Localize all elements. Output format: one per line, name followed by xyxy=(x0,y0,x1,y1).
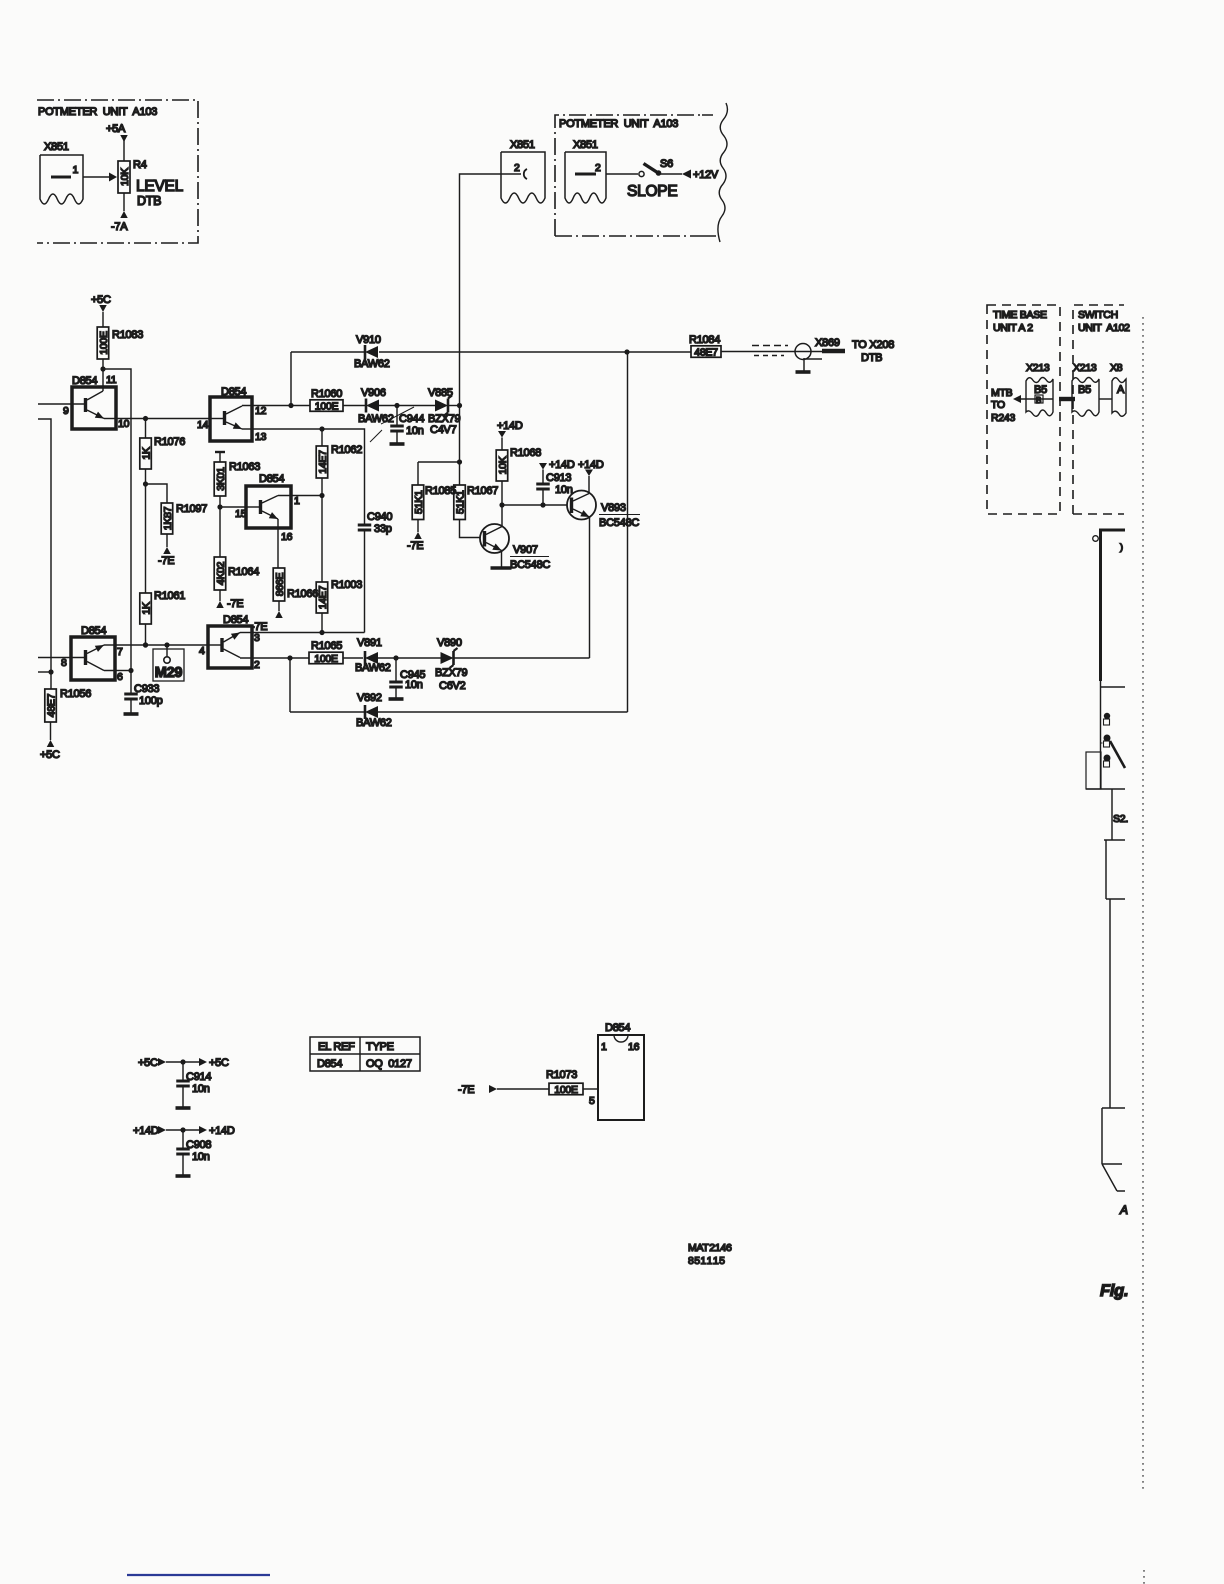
svg-text:X851: X851 xyxy=(44,141,69,153)
diode V910 BAW62 xyxy=(354,334,390,370)
svg-text:48E7: 48E7 xyxy=(694,346,718,358)
svg-text:POTMETER UNIT A103: POTMETER UNIT A103 xyxy=(559,118,678,130)
svg-text:): ) xyxy=(1120,542,1123,552)
wire pin 2 to R1065 xyxy=(252,655,309,660)
wire V890 to V893 emitter xyxy=(454,657,590,659)
svg-text:S6: S6 xyxy=(660,158,673,170)
svg-text:A: A xyxy=(1119,1203,1128,1217)
MTB arrow to R243 xyxy=(991,387,1053,424)
svg-text:3: 3 xyxy=(254,632,260,644)
wire R1063 node to pin 15 xyxy=(220,506,246,508)
wire pin 1 to R1062/R1003 node xyxy=(291,493,325,498)
svg-text:BAW62: BAW62 xyxy=(355,662,391,674)
resistor R1003 14E7 xyxy=(316,579,362,635)
page fold dotted line xyxy=(1143,317,1144,1584)
resistor R1061 1K xyxy=(140,484,185,648)
connector X86x (clipped at fold) xyxy=(1110,362,1126,416)
unit box TIME BASE UNIT A2 xyxy=(987,305,1060,514)
svg-text:R1060: R1060 xyxy=(311,388,342,400)
svg-text:+14D: +14D xyxy=(578,459,604,471)
svg-text:-7E: -7E xyxy=(407,540,423,552)
capacitor C913 10n xyxy=(536,459,575,505)
capacitor C914 10n xyxy=(176,1062,212,1108)
svg-text:TO X208: TO X208 xyxy=(852,339,894,351)
wire X851-2 down to trigger circuit xyxy=(460,174,502,462)
svg-text:POTMETER UNIT A103: POTMETER UNIT A103 xyxy=(38,106,157,118)
wire V885 to slope line xyxy=(448,403,462,408)
svg-text:+5A: +5A xyxy=(106,123,126,135)
wire X851-2 to switch S6 xyxy=(606,173,638,175)
potentiometer R4 10K LEVEL DTB xyxy=(118,159,184,208)
svg-text:866E: 866E xyxy=(274,572,286,596)
svg-text:R1085: R1085 xyxy=(425,485,456,497)
svg-text:BAW62: BAW62 xyxy=(354,358,390,370)
svg-text:B5: B5 xyxy=(1078,384,1091,396)
switch section box B xyxy=(1102,1108,1125,1191)
svg-text:V892: V892 xyxy=(357,692,382,704)
svg-text:1: 1 xyxy=(601,1041,607,1053)
zener diode V885 BZX79 C4V7 xyxy=(428,387,461,436)
svg-text:C940: C940 xyxy=(367,511,392,523)
svg-text:A: A xyxy=(1117,384,1125,396)
capacitor C944 10n (selected) xyxy=(370,406,424,445)
thick wire from switch unit xyxy=(1093,530,1125,681)
svg-text:BZX79: BZX79 xyxy=(435,667,468,679)
svg-text:TIME BASE: TIME BASE xyxy=(993,309,1047,321)
svg-text:C6V2: C6V2 xyxy=(439,680,466,692)
svg-text:+5C: +5C xyxy=(91,294,111,306)
supply rail +14D with C908 xyxy=(133,1125,235,1137)
section box left of contacts xyxy=(1086,752,1101,789)
transistor V907 BC548C xyxy=(480,505,550,571)
resistor R1068 10K xyxy=(496,447,541,505)
supply -7E below R1097 xyxy=(158,547,174,567)
svg-text:R1076: R1076 xyxy=(154,436,185,448)
svg-text:D854: D854 xyxy=(81,625,106,637)
transistor array D854 section (pins 14,12,13) xyxy=(197,386,267,443)
zener diode V890 BZX79 C6V2 xyxy=(435,637,468,692)
connector X851 pin 2 (to main board) xyxy=(501,139,545,203)
svg-text:V907: V907 xyxy=(513,544,538,556)
svg-text:UNIT A 2: UNIT A 2 xyxy=(993,322,1033,334)
wire pin 9 to page edge xyxy=(38,403,86,405)
capacitor C945 10n xyxy=(389,658,426,699)
svg-text:C914: C914 xyxy=(186,1071,211,1083)
svg-text:R1056: R1056 xyxy=(60,688,91,700)
svg-text:51K1: 51K1 xyxy=(454,490,466,514)
wire V891 to V890 xyxy=(378,655,442,660)
wire trigger gate rail to R1084/X869 xyxy=(291,349,691,405)
svg-text:10n: 10n xyxy=(192,1083,210,1095)
svg-text:S2.: S2. xyxy=(1113,813,1128,825)
capacitor C933 100p xyxy=(124,683,163,714)
transistor array D854 section (pins 9,11,10) xyxy=(63,374,130,430)
svg-text:EL REF: EL REF xyxy=(318,1041,355,1053)
svg-text:B5: B5 xyxy=(1034,384,1047,396)
svg-text:R1067: R1067 xyxy=(467,485,498,497)
wire R1083 to D854 pin 11 and down-branch xyxy=(100,359,133,694)
wire pin 6 to C933 node xyxy=(115,670,131,672)
svg-text:V910: V910 xyxy=(356,334,381,346)
svg-text:Fig.: Fig. xyxy=(1100,1282,1128,1300)
svg-text:C908: C908 xyxy=(186,1139,211,1151)
svg-text:10n: 10n xyxy=(406,425,424,437)
svg-text:D854: D854 xyxy=(259,473,284,485)
resistor R1065 100E xyxy=(309,640,363,665)
supply -7E below R1066 xyxy=(251,611,283,633)
svg-text:V890: V890 xyxy=(437,637,462,649)
svg-text:9: 9 xyxy=(63,405,69,417)
svg-text:R1063: R1063 xyxy=(229,461,260,473)
svg-text:R1061: R1061 xyxy=(154,590,185,602)
supply +14D at V893 collector xyxy=(578,459,604,476)
svg-text:R1097: R1097 xyxy=(176,503,207,515)
svg-text:100E: 100E xyxy=(314,653,338,665)
svg-text:MAT 2146: MAT 2146 xyxy=(688,1242,732,1254)
transistor V893 BC548C xyxy=(567,476,640,658)
svg-text:13: 13 xyxy=(255,431,267,443)
svg-text:D854: D854 xyxy=(317,1058,342,1070)
svg-text:D854: D854 xyxy=(605,1022,630,1034)
svg-text:12: 12 xyxy=(255,405,267,417)
svg-text:+5C: +5C xyxy=(138,1057,158,1069)
svg-text:+12V: +12V xyxy=(693,169,719,181)
svg-text:-7A: -7A xyxy=(111,221,128,233)
wire pin 7 rail to pin 4 xyxy=(115,642,208,647)
svg-text:V906: V906 xyxy=(361,387,386,399)
svg-text:8: 8 xyxy=(61,657,67,669)
resistor R1066 866E xyxy=(273,568,318,611)
svg-text:15: 15 xyxy=(235,508,247,520)
capacitor C940 33p xyxy=(358,511,393,633)
resistor R1076 1K xyxy=(140,419,185,487)
svg-text:100p: 100p xyxy=(139,695,163,707)
transistor array D854 section (pins 8,7,6) xyxy=(38,625,123,683)
pen mark (blue line) xyxy=(127,1574,270,1576)
wire page edge branch down to R1056 xyxy=(38,419,54,689)
supply +14D at R1068 xyxy=(497,420,523,450)
svg-text:10n: 10n xyxy=(405,679,423,691)
svg-text:-7E: -7E xyxy=(158,555,174,567)
svg-text:14E7: 14E7 xyxy=(317,450,329,474)
capacitor C908 10n xyxy=(176,1130,212,1176)
resistor R1063 3K01 xyxy=(214,461,260,510)
svg-text:+5C: +5C xyxy=(209,1057,229,1069)
svg-text:-7E: -7E xyxy=(227,598,243,610)
svg-text:OQ 0127: OQ 0127 xyxy=(366,1058,412,1070)
connector X851 pin 2 (inside slope unit) xyxy=(565,139,606,203)
resistor R1073 100E xyxy=(546,1069,598,1107)
svg-text:C913: C913 xyxy=(546,472,571,484)
terminal stub above R1063 xyxy=(215,452,225,462)
wire V892 branch xyxy=(290,658,364,712)
svg-text:8 5 1 1 1 5: 8 5 1 1 1 5 xyxy=(688,1255,725,1267)
svg-text:100E: 100E xyxy=(98,331,110,355)
svg-text:4K02: 4K02 xyxy=(215,561,227,585)
svg-text:10K: 10K xyxy=(497,456,509,474)
svg-text:X851: X851 xyxy=(573,139,598,151)
coax dashes at X869 xyxy=(752,346,788,356)
resistor R1097 1K87 xyxy=(146,484,208,547)
svg-text:BC548C: BC548C xyxy=(599,517,639,529)
wire V906 to V885 xyxy=(379,403,436,408)
svg-text:+14D: +14D xyxy=(209,1125,235,1137)
diode V906 BAW62 xyxy=(358,387,394,425)
svg-text:V891: V891 xyxy=(357,637,382,649)
svg-text:C944: C944 xyxy=(399,413,424,425)
unit box SWITCH UNIT A102 xyxy=(1073,305,1130,514)
transistor array D854 section (pins 15,1,16) xyxy=(235,473,300,568)
svg-text:1K87: 1K87 xyxy=(162,506,174,530)
wire to contact column xyxy=(1101,667,1126,789)
clipped label A xyxy=(1119,1203,1128,1217)
document number MAT2146 851115 xyxy=(688,1242,732,1267)
svg-text:+5C: +5C xyxy=(40,749,60,761)
svg-text:100E: 100E xyxy=(315,400,339,412)
svg-text:TYPE: TYPE xyxy=(366,1041,394,1053)
unit box POTMETER UNIT A103 (LEVEL) xyxy=(37,100,198,243)
svg-text:1K: 1K xyxy=(140,602,152,615)
unit box POTMETER UNIT A103 (SLOPE) xyxy=(555,103,727,242)
svg-text:R1073: R1073 xyxy=(546,1069,577,1081)
svg-text:M29: M29 xyxy=(155,665,183,681)
svg-text:48E7: 48E7 xyxy=(45,693,57,717)
test point M29 xyxy=(153,642,184,681)
svg-text:10n: 10n xyxy=(192,1151,210,1163)
svg-text:R1084: R1084 xyxy=(689,334,720,346)
wire pin 3 rail xyxy=(252,632,365,634)
svg-text:MTB: MTB xyxy=(991,387,1013,399)
transistor array D854 section (pins 4,3,2) xyxy=(199,614,260,671)
svg-text:X213: X213 xyxy=(1026,362,1050,374)
supply -7A xyxy=(111,193,128,233)
svg-text:D854: D854 xyxy=(223,614,248,626)
svg-text:TO: TO xyxy=(991,399,1005,411)
switch S6 SLOPE xyxy=(627,158,677,200)
svg-text:10: 10 xyxy=(118,418,130,430)
svg-text:DTB: DTB xyxy=(137,194,161,208)
wire pin 13 rail to C940 xyxy=(252,426,365,525)
svg-text:7: 7 xyxy=(117,646,123,658)
svg-text:B: B xyxy=(1036,396,1041,405)
supply -7E below R1064 xyxy=(216,598,243,610)
svg-text:LEVEL: LEVEL xyxy=(136,178,184,195)
wire node to R1085/R1067 xyxy=(418,459,462,464)
svg-text:SLOPE: SLOPE xyxy=(627,183,677,200)
svg-text:+14D: +14D xyxy=(549,459,575,471)
switch section box A xyxy=(1104,840,1125,899)
switch contacts S2 xyxy=(1101,713,1126,768)
svg-text:R1068: R1068 xyxy=(510,447,541,459)
connector X213 (switch side) B5 xyxy=(1072,362,1099,416)
svg-text:1: 1 xyxy=(294,495,300,507)
svg-text:R1062: R1062 xyxy=(331,444,362,456)
svg-text:C4V7: C4V7 xyxy=(430,424,457,436)
svg-text:14: 14 xyxy=(197,419,209,431)
svg-text:4: 4 xyxy=(199,645,205,657)
svg-text:SWITCH: SWITCH xyxy=(1078,309,1118,321)
svg-text:100E: 100E xyxy=(554,1084,578,1096)
resistor R1085 51K1 xyxy=(412,462,456,532)
svg-text:V885: V885 xyxy=(428,387,453,399)
svg-text:1: 1 xyxy=(73,164,79,176)
resistor R1067 51K1 xyxy=(454,462,498,538)
svg-text:2: 2 xyxy=(514,162,520,174)
diode V891 BAW62 xyxy=(355,637,391,674)
svg-text:-7E: -7E xyxy=(458,1084,474,1096)
svg-text:C933: C933 xyxy=(134,683,159,695)
connector X869 xyxy=(795,337,845,360)
supply +5C below R1056 xyxy=(40,722,60,761)
resistor R1062 14E7 xyxy=(316,429,362,582)
resistor R1083 100E xyxy=(97,327,143,359)
supply -7E to R1073 xyxy=(458,1084,549,1096)
svg-text:BAW62: BAW62 xyxy=(358,413,394,425)
svg-text:33p: 33p xyxy=(374,523,392,535)
label S2 xyxy=(1113,813,1128,825)
svg-text:+14D: +14D xyxy=(133,1125,159,1137)
svg-text:2: 2 xyxy=(595,162,601,174)
resistor R1056 48E7 xyxy=(45,688,91,722)
svg-text:6: 6 xyxy=(117,671,123,683)
svg-text:DTB: DTB xyxy=(861,352,882,364)
svg-text:V893: V893 xyxy=(601,502,626,514)
svg-text:10n: 10n xyxy=(555,484,573,496)
svg-text:+14D: +14D xyxy=(497,420,523,432)
svg-text:R243: R243 xyxy=(991,412,1016,424)
svg-text:X851: X851 xyxy=(510,139,535,151)
thick interconnect wire xyxy=(1059,397,1075,401)
resistor R1060 100E xyxy=(310,388,343,412)
svg-text:X869: X869 xyxy=(815,337,840,349)
connector X851 pin 1 xyxy=(40,141,83,204)
resistor R1064 4K02 xyxy=(214,507,259,601)
svg-text:3K01: 3K01 xyxy=(215,467,227,491)
supply +5C at R1083 xyxy=(91,294,111,327)
svg-text:R1064: R1064 xyxy=(228,566,259,578)
svg-text:2: 2 xyxy=(254,659,260,671)
svg-text:51K1: 51K1 xyxy=(413,490,425,514)
svg-text:R1083: R1083 xyxy=(112,329,143,341)
supply +5A xyxy=(106,123,128,161)
svg-text:X8: X8 xyxy=(1110,362,1123,374)
svg-text:R4: R4 xyxy=(133,159,147,171)
wire pin 10 to D854 pin 14 xyxy=(116,416,210,421)
wire X851-1 to R4 with arrow xyxy=(83,173,117,182)
diode V892 BAW62 xyxy=(356,692,392,729)
wire between sections xyxy=(1109,899,1111,1108)
supply rail +5C with C914 xyxy=(138,1057,229,1069)
wire X213 to X86x xyxy=(1099,398,1112,400)
resistor R1084 48E7 xyxy=(689,334,795,358)
wire V907 collector rail xyxy=(499,502,567,507)
svg-text:5: 5 xyxy=(589,1095,595,1107)
svg-text:10K: 10K xyxy=(119,168,131,186)
wire section bottom xyxy=(1086,789,1125,840)
IC D854 package xyxy=(598,1022,644,1120)
label TO X208 DTB xyxy=(852,339,894,364)
svg-text:BAW62: BAW62 xyxy=(356,717,392,729)
connector X213 (time base side) B5 xyxy=(1026,362,1053,416)
svg-text:UNIT A102: UNIT A102 xyxy=(1078,322,1130,334)
wire pin 12 to R1060 xyxy=(252,403,310,408)
supply +12V at S6 xyxy=(660,169,719,181)
figure label xyxy=(1100,1282,1128,1300)
svg-text:BC548C: BC548C xyxy=(510,559,550,571)
svg-text:D854: D854 xyxy=(72,375,97,387)
svg-text:16: 16 xyxy=(281,531,293,543)
wire R1060 to V906 xyxy=(343,405,366,407)
svg-text:R1065: R1065 xyxy=(311,640,342,652)
svg-text:R1066: R1066 xyxy=(287,588,318,600)
svg-text:X213: X213 xyxy=(1073,362,1097,374)
supply -7E below R1085 xyxy=(407,532,423,552)
svg-text:14E7: 14E7 xyxy=(317,585,329,609)
svg-text:11: 11 xyxy=(106,374,117,386)
svg-text:16: 16 xyxy=(628,1041,640,1053)
table EL REF TYPE D854 OQ0127 xyxy=(310,1037,420,1071)
svg-text:1K: 1K xyxy=(140,447,152,460)
wire V892 to output rail xyxy=(377,352,628,712)
svg-text:R1003: R1003 xyxy=(331,579,362,591)
ground at X869 xyxy=(796,358,823,372)
